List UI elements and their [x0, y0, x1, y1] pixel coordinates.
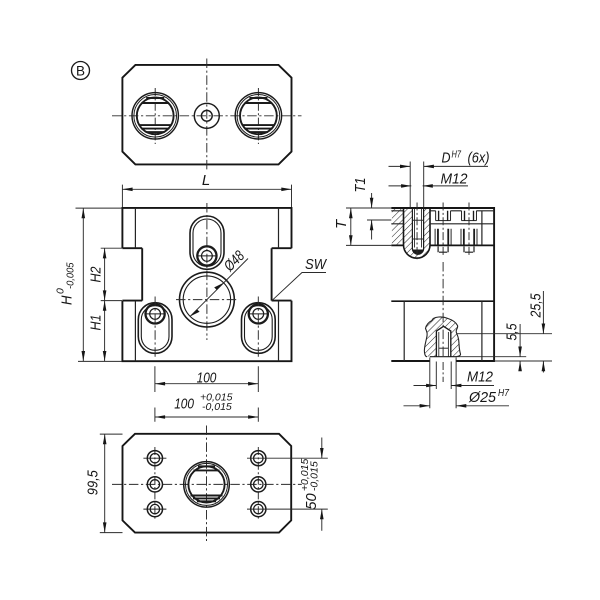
bottom broken-out section hatch [424, 317, 460, 357]
hole B2 [251, 477, 266, 492]
front view bottom band outline [122, 301, 291, 362]
left threaded bore centerline [154, 88, 156, 144]
dimension 50 extension lines [247, 458, 328, 509]
bottom left screw [145, 304, 166, 323]
dimension L extension lines [122, 185, 291, 208]
dimension T extension lines [346, 208, 391, 245]
bottom section break outline [424, 317, 460, 357]
dimension D line [389, 165, 489, 167]
dimension M12 top arrows [401, 184, 411, 188]
bottom view vertical centerline [206, 426, 208, 542]
bottom right obround slot outer [242, 303, 276, 354]
svg-text:50: 50 [303, 493, 320, 510]
svg-text:H1: H1 [88, 315, 105, 331]
bottom left slot centerline [154, 297, 156, 358]
dimension H2 line [104, 248, 106, 300]
dimension T1 line [371, 193, 373, 240]
dimension M12 top line [389, 185, 469, 187]
svg-text:5,5: 5,5 [504, 323, 521, 341]
thread station 2 upper [462, 211, 477, 221]
dimension 25H7 extension lines [430, 358, 456, 409]
dimension 100 line [155, 383, 258, 385]
dimension 5,5 line [519, 324, 521, 371]
dimension 25,5 arrows [542, 324, 546, 334]
right threaded bore [235, 93, 281, 139]
dimension T line [350, 208, 352, 245]
thread station 2 centerline [468, 203, 470, 257]
dimension H1 line [104, 301, 106, 362]
svg-text:M12: M12 [467, 369, 494, 386]
dimension 50 arrows [320, 448, 324, 458]
bottom right screw [248, 304, 269, 323]
keyhole slot bottom cone [413, 250, 424, 255]
dimension M12 bottom line [414, 385, 495, 387]
keyhole slot thread lines [415, 209, 422, 248]
side view top chamfer line [391, 210, 494, 212]
svg-text:M12: M12 [441, 171, 469, 188]
svg-text:H2: H2 [88, 266, 105, 283]
svg-text:D: D [442, 150, 451, 167]
front view middle band sides [142, 248, 271, 300]
dimension 25H7 arrows [420, 404, 430, 408]
top keyhole slot outer [190, 216, 224, 269]
dimension M12 bottom extension lines [436, 331, 451, 357]
svg-text:99,5: 99,5 [85, 470, 102, 496]
front view top band outline [122, 208, 291, 248]
center threaded bore bottom view [184, 462, 230, 508]
front view chamfer edge lines [135, 208, 278, 361]
keyhole slot bore [412, 208, 423, 254]
svg-text:B: B [76, 63, 85, 78]
dimension H line [82, 208, 84, 361]
hole B1 [251, 451, 266, 466]
dimension 99,5 extension lines [100, 434, 123, 532]
side view plate parting line [391, 244, 494, 246]
side view outline [391, 208, 494, 361]
bottom right obround slot inner [245, 306, 273, 351]
svg-text:L: L [202, 172, 210, 189]
dimension L arrows [122, 188, 132, 192]
section hatch left column [392, 209, 403, 245]
dimension H1 arrows [103, 301, 107, 311]
view balloon B [72, 62, 90, 80]
svg-text:100: 100 [197, 370, 217, 387]
bottom thread bore outline [436, 326, 450, 356]
front view vertical centerline [206, 203, 208, 340]
top keyhole slot inner [193, 219, 221, 266]
bottom thread end line [439, 347, 449, 349]
svg-text:(6x): (6x) [468, 150, 490, 167]
dimension 50 line [321, 438, 323, 531]
dimension D extension lines [410, 162, 424, 208]
left hole column centerline [154, 447, 156, 521]
dimension T1 extension line [367, 219, 391, 221]
dimension H extension lines [76, 208, 123, 361]
svg-text:H: H [59, 295, 76, 305]
SW leader [272, 273, 326, 301]
dimension 50 tol label [299, 459, 321, 510]
svg-text:100: 100 [174, 395, 194, 412]
bottom view horizontal centerline [112, 483, 302, 485]
bore 48 horizontal centerline [176, 299, 238, 301]
bottom centerline below [442, 362, 444, 382]
dimension 25H7 line [404, 405, 510, 407]
top slot screw [197, 246, 218, 265]
left threaded bore [132, 93, 178, 139]
right threaded bore centerline [257, 88, 259, 144]
svg-text:-0,015: -0,015 [309, 461, 321, 491]
section hatch keyhole ring [404, 209, 431, 258]
hole A2 [147, 477, 162, 492]
dimension M12 bottom arrows [426, 384, 436, 388]
counterbore face extension [456, 356, 526, 358]
hole B3 [251, 502, 266, 517]
dimension 5,5 arrows [518, 347, 522, 357]
thread station 1 tip [438, 246, 448, 252]
thread station 1 upper [436, 211, 451, 221]
dimension 100 tol extension lines [155, 408, 258, 422]
thread station 2 tip [464, 246, 474, 252]
side view lower parting line [391, 300, 494, 302]
thread interface line [391, 223, 494, 225]
thread depth extension line [457, 333, 552, 335]
dimension 100 extension lines [155, 366, 258, 392]
top view horizontal centerline [112, 115, 302, 117]
diameter 48 leader line [190, 259, 248, 317]
side view middle centerline [442, 262, 444, 356]
bottom view plate outline [123, 434, 292, 533]
hole A1 [143, 451, 166, 466]
svg-text:-0,015: -0,015 [202, 401, 232, 413]
dimension H2 arrows [103, 248, 107, 258]
bottom thread minor lines [439, 332, 449, 357]
bottom edge extension line [494, 360, 552, 362]
diameter 48 arrows [190, 309, 200, 316]
dimension H2 extension lines [101, 248, 122, 300]
thread station 1 centerline [442, 203, 444, 257]
top view plate outline [122, 65, 291, 164]
bottom right slot centerline [257, 297, 259, 358]
right hole column centerline [257, 447, 259, 521]
bottom left obround slot outer [138, 303, 172, 354]
thread station 1 lower [435, 229, 451, 246]
keyhole slot outer profile [404, 208, 431, 258]
svg-text:H7: H7 [498, 388, 509, 399]
dimension T arrows [349, 208, 353, 218]
hole A3 [143, 502, 166, 517]
dimension H label [55, 262, 77, 305]
dimension 99,5 arrows [103, 434, 107, 444]
dimension 25,5 line [542, 291, 544, 373]
svg-text:SW: SW [305, 256, 328, 273]
dimension 100 arrows [155, 382, 165, 386]
dimension 99,5 line [104, 434, 106, 532]
bottom left obround slot inner [141, 306, 169, 351]
keyhole slot internal steps [412, 220, 423, 239]
dimension D label [442, 149, 490, 167]
dimension T1 arrows [370, 198, 374, 208]
dimension 25H7 label [468, 388, 509, 406]
svg-text:T1: T1 [352, 178, 369, 193]
svg-text:-0,005: -0,005 [64, 262, 76, 289]
svg-text:25,5: 25,5 [528, 293, 545, 318]
bore 48 circle [180, 272, 235, 327]
dimension H arrows [82, 208, 86, 218]
svg-text:Ø25: Ø25 [468, 389, 497, 406]
top view vertical centerline [206, 59, 208, 172]
side view chamfer verticals [404, 211, 482, 361]
dimension D arrows [400, 165, 410, 169]
dimension 100 tol arrows [155, 415, 165, 419]
dimension L line [122, 188, 291, 190]
svg-text:H7: H7 [452, 149, 462, 161]
dimension 100 tol line [155, 416, 258, 418]
center pilot hole [194, 103, 219, 128]
keyhole slot centerline [416, 203, 418, 261]
counterbore face line [430, 356, 456, 358]
thread station 2 lower [461, 229, 477, 246]
